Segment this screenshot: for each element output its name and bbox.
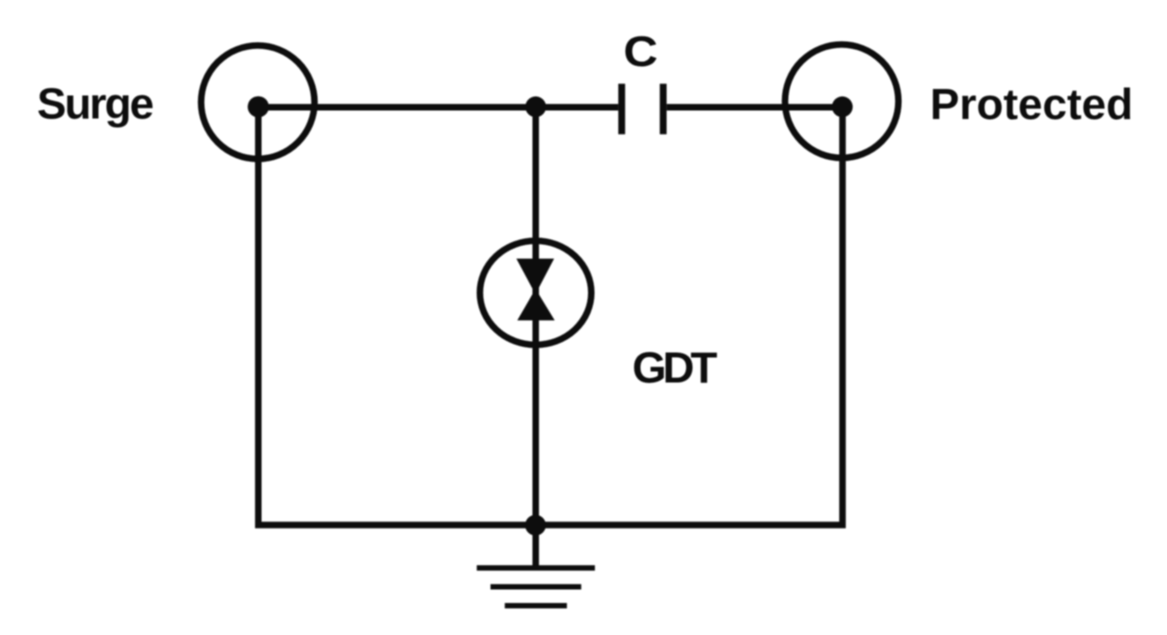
svg-text:Protected: Protected bbox=[930, 80, 1133, 129]
svg-text:GDT: GDT bbox=[632, 343, 717, 392]
svg-text:Surge: Surge bbox=[37, 80, 154, 129]
svg-text:C: C bbox=[623, 28, 658, 76]
